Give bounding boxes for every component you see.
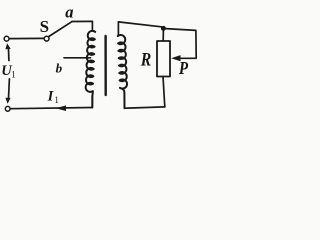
slider arrowhead xyxy=(171,55,180,61)
wire contact a to primary stub xyxy=(72,20,93,22)
junction node xyxy=(161,26,166,31)
svg-text:1: 1 xyxy=(11,69,16,79)
svg-text:b: b xyxy=(56,61,63,76)
transformer primary winding xyxy=(86,31,96,108)
wire slider arm P xyxy=(166,29,196,59)
svg-text:I: I xyxy=(47,88,55,104)
wire primary bottom lead xyxy=(91,97,93,108)
transformer secondary winding stub xyxy=(117,22,120,36)
node terminal bottom-left xyxy=(5,106,10,111)
voltage arrow U1 down head xyxy=(5,98,10,104)
svg-text:P: P xyxy=(178,58,188,78)
voltage arrow U1 up shaft xyxy=(8,49,10,60)
transformer secondary winding xyxy=(118,35,127,108)
bottom wire xyxy=(10,108,92,109)
svg-text:a: a xyxy=(65,3,73,22)
wire top-left node to switch pivot xyxy=(9,37,44,39)
node terminal top-left xyxy=(4,36,9,41)
wire contact b tap xyxy=(64,57,91,59)
wire resistor bottom lead xyxy=(163,77,165,107)
svg-text:1: 1 xyxy=(54,95,59,105)
bottom wire secondary loop xyxy=(125,107,165,108)
svg-text:S: S xyxy=(40,17,49,36)
current I1 arrowhead xyxy=(56,105,67,111)
voltage arrow U1 down shaft xyxy=(8,79,11,99)
wire junction to resistor top xyxy=(162,28,164,41)
switch S pivot xyxy=(44,36,49,41)
transformer core xyxy=(104,36,106,95)
voltage arrow U1 up head xyxy=(5,43,10,49)
switch S blade xyxy=(49,22,72,37)
resistor R body xyxy=(157,41,170,77)
transformer primary winding stub xyxy=(92,21,95,32)
svg-text:R: R xyxy=(140,49,151,70)
wire secondary top to junction xyxy=(118,22,161,27)
